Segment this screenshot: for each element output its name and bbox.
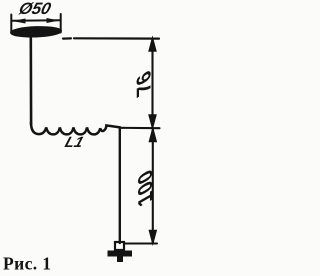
wire (middle extension line to dimension) [120, 127, 160, 129]
svg-text:Рис. 1: Рис. 1 [3, 254, 51, 274]
svg-text:L1: L1 [63, 134, 86, 151]
arrowhead 76 top (up) [149, 39, 156, 52]
arrowhead 100 top (up) [150, 129, 157, 142]
arrowhead Ø50 left [13, 19, 26, 24]
connector: wide bar [108, 251, 133, 257]
connector: square head (open) [115, 242, 124, 250]
disc electrode plate (filled ellipse) [11, 26, 62, 38]
arrowhead 76 bottom (down) [149, 115, 156, 128]
connector: bottom stub [117, 257, 123, 263]
wire (bottom extension line) [124, 242, 157, 244]
wire (main vertical down to connector) [119, 128, 121, 244]
wire from disc down to coil [29, 36, 32, 124]
dimension line 100 [152, 129, 154, 243]
disc electrode left wall [10, 15, 12, 33]
disc electrode right wall [60, 14, 62, 33]
dimension line Ø50 rim [12, 19, 60, 22]
dimension line 76 [151, 39, 153, 128]
wire (top extension line from disc to dimension) [63, 37, 159, 39]
svg-text:Ø50: Ø50 [17, 0, 54, 18]
inductor L1 [31, 123, 120, 135]
arrowhead Ø50 right [47, 18, 60, 23]
arrowhead 100 bottom (down) [150, 231, 157, 244]
